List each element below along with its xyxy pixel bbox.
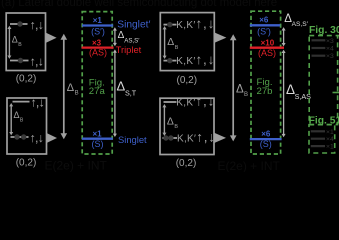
mini level x1 top xyxy=(311,130,325,132)
double arrow splitting inside bottom-right box xyxy=(162,104,166,136)
svg-text:Δ: Δ xyxy=(67,82,75,94)
svg-text:×6: ×6 xyxy=(259,16,269,25)
svg-text:(AS): (AS) xyxy=(89,48,107,58)
mini level x3 bottom xyxy=(312,55,326,57)
level line lower right-top box xyxy=(164,60,177,62)
svg-text:×6: ×6 xyxy=(261,129,271,138)
label Delta_B top-right box xyxy=(167,37,179,51)
box (0,2) lower-left xyxy=(7,98,47,154)
arrow triangle right of bottom-right box xyxy=(215,133,227,143)
label Delta_S,AS xyxy=(286,82,311,101)
electron dot xyxy=(167,58,172,63)
svg-text:(S′): (S′) xyxy=(91,26,105,36)
tall double arrow Delta_B right xyxy=(230,34,237,141)
svg-text:B: B xyxy=(18,42,22,48)
svg-text:(0,2): (0,2) xyxy=(16,74,37,85)
svg-text:(S): (S) xyxy=(92,139,104,149)
svg-text:S,T: S,T xyxy=(125,89,137,98)
blue level S' right xyxy=(250,24,280,26)
label Delta_B tall right xyxy=(236,84,248,99)
svg-text:Fig. 30b: Fig. 30b xyxy=(309,25,339,36)
mini level x4 xyxy=(311,138,325,140)
label Delta_AS,S' left xyxy=(118,30,141,44)
level line upper (0,2) left box top xyxy=(10,23,28,25)
box (0,2) upper-right xyxy=(160,13,214,71)
electron dot xyxy=(17,21,22,26)
svg-text:(0,2): (0,2) xyxy=(16,158,37,169)
level line upper (0,2) left box bottom xyxy=(13,101,30,103)
blue level S' left xyxy=(82,24,113,26)
green dashed box Fig 27a xyxy=(82,12,112,154)
green dashed box Fig 27b xyxy=(251,11,281,154)
label Delta_AS,S' right xyxy=(284,13,308,28)
svg-text:Singlet: Singlet xyxy=(118,134,147,145)
svg-text:E(2e) + INT: E(2e) + INT xyxy=(45,159,108,173)
svg-text:×4: ×4 xyxy=(326,46,334,53)
box (0,2) upper-left xyxy=(6,13,45,71)
label Delta_B bottom-right box xyxy=(167,116,179,130)
label Delta_B top-left box xyxy=(12,34,22,48)
svg-text:(0,2): (0,2) xyxy=(176,158,197,169)
double arrow splitting inside top-right box xyxy=(163,26,167,59)
arrow triangle right of top-right box xyxy=(215,33,227,43)
svg-text:Triplet: Triplet xyxy=(116,44,142,55)
svg-text:27b: 27b xyxy=(256,86,272,97)
mini level x1 bottom xyxy=(311,145,325,147)
red level AS left xyxy=(82,46,114,48)
green dashed box Fig 51b levels xyxy=(309,125,335,153)
svg-text:↑,↓: ↑,↓ xyxy=(30,95,44,109)
red level AS right xyxy=(250,47,284,49)
blue level S left xyxy=(82,138,113,140)
svg-text:×4: ×4 xyxy=(326,136,334,143)
electron dots pair xyxy=(14,134,19,139)
svg-text:Δ: Δ xyxy=(167,37,174,48)
double arrow Delta_AS,S' right xyxy=(282,27,286,46)
svg-text:Δ: Δ xyxy=(236,84,244,96)
svg-text:↑,↓: ↑,↓ xyxy=(30,131,44,145)
label Fig. 27a xyxy=(89,78,106,97)
svg-text:(0,2): (0,2) xyxy=(177,75,198,86)
svg-text:↑,↓: ↑,↓ xyxy=(30,54,44,68)
electron dots pair xyxy=(163,135,168,140)
label Fig. 27b xyxy=(256,77,272,97)
svg-text:Δ: Δ xyxy=(14,110,20,120)
svg-text:B: B xyxy=(75,90,79,96)
level line upper right-top box xyxy=(164,24,177,26)
arrow triangle right of top-left box xyxy=(46,33,57,43)
level line upper right-bottom box xyxy=(164,101,177,103)
electron dot xyxy=(167,22,172,27)
svg-text:27a: 27a xyxy=(89,86,106,97)
svg-text:×10: ×10 xyxy=(261,38,275,47)
svg-text:(AS): (AS) xyxy=(258,48,276,58)
svg-text:Δ: Δ xyxy=(167,116,174,127)
svg-text:B: B xyxy=(175,45,179,51)
long double arrow Delta_S,AS right xyxy=(282,50,286,138)
level line lower right-bottom box xyxy=(163,137,178,139)
svg-text:E(2e) + INT: E(2e) + INT xyxy=(218,159,281,172)
label Delta_B bottom-left box xyxy=(14,110,24,124)
svg-text:×3: ×3 xyxy=(92,38,102,47)
svg-text:×3: ×3 xyxy=(326,38,334,45)
svg-text:(a) Lateral double well semico: (a) Lateral double well semiconducting d… xyxy=(1,0,277,9)
green dash top edge extension xyxy=(338,35,339,37)
green dashed box Fig 30b levels xyxy=(309,36,337,125)
svg-text:B: B xyxy=(174,124,178,130)
svg-text:×1: ×1 xyxy=(326,129,334,136)
mini level x3 top xyxy=(312,39,326,41)
svg-text:AS,S′: AS,S′ xyxy=(292,21,309,28)
svg-text:(S′): (S′) xyxy=(257,27,271,37)
blue level S right xyxy=(250,138,282,140)
level line lower (0,2) left box top xyxy=(10,60,29,62)
svg-text:×1: ×1 xyxy=(326,144,334,151)
svg-text:Δ: Δ xyxy=(12,34,18,44)
svg-text:×1: ×1 xyxy=(92,130,102,139)
svg-text:×3: ×3 xyxy=(326,53,334,60)
label Delta_B tall left xyxy=(67,82,79,97)
mini level x4 xyxy=(312,47,326,49)
tall double arrow Delta_B left xyxy=(61,34,68,139)
electron dot xyxy=(18,58,23,63)
long double arrow Delta_S,T left xyxy=(113,49,117,137)
svg-text:↑,↓: ↑,↓ xyxy=(30,18,44,32)
svg-text:×1: ×1 xyxy=(93,16,103,25)
box (0,2) lower-right xyxy=(160,98,214,154)
arrow triangle right of bottom-left box xyxy=(47,133,58,143)
double arrow splitting inside top-left box xyxy=(7,26,11,59)
svg-text:B: B xyxy=(244,92,248,98)
double arrow splitting inside bottom-left box xyxy=(9,103,13,135)
svg-text:(S): (S) xyxy=(260,139,272,149)
label Delta_S,T xyxy=(117,79,137,98)
double arrow Delta_AS,S' left xyxy=(113,27,117,46)
svg-text:B: B xyxy=(20,117,24,123)
level line lower (0,2) left box bottom xyxy=(11,136,29,138)
green dash tick xyxy=(333,92,339,94)
svg-text:Singlet′: Singlet′ xyxy=(117,19,150,30)
